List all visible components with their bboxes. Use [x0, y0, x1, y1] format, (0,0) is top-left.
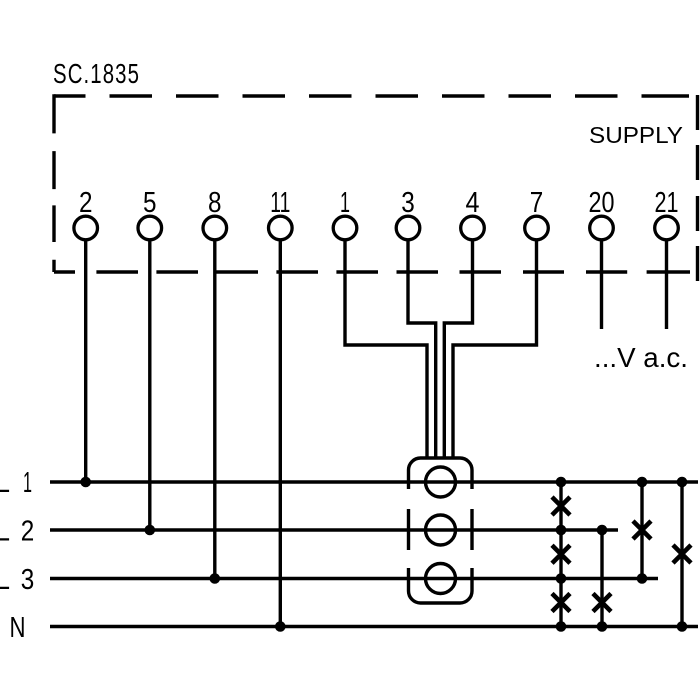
terminal 20 circle — [590, 216, 614, 240]
wire terminal 3 to CT block — [408, 241, 436, 458]
link wire x=642 L1 to L3 — [640, 482, 643, 579]
svg-text:N: N — [10, 612, 26, 644]
line L2 — [50, 528, 618, 532]
X link mark x=561 L3-N — [552, 594, 570, 612]
svg-text:SC.1835: SC.1835 — [53, 58, 140, 89]
junction dot L3 x=561 — [556, 573, 567, 584]
junction dot L1 x=682 — [677, 477, 688, 488]
junction dot L2 / wire 5 — [145, 525, 156, 536]
svg-text:20: 20 — [589, 187, 615, 219]
link wire x=602 L2 to N — [600, 530, 603, 627]
CT block top edge — [409, 458, 473, 470]
junction dot L2 x=561 — [556, 525, 567, 536]
svg-text:L: L — [0, 564, 10, 596]
link wire x=682 L1 to N — [680, 482, 683, 627]
terminal strip dashed line — [54, 270, 690, 273]
wire terminal 1 to CT block — [345, 241, 427, 458]
terminal 7 circle — [525, 216, 549, 240]
junction dot L1 x=561 — [556, 477, 567, 488]
terminal 21 circle — [655, 216, 679, 240]
svg-text:21: 21 — [655, 187, 679, 219]
svg-text:5: 5 — [143, 187, 157, 219]
junction dot L3 / wire 8 — [210, 573, 221, 584]
CT circle phase L3 — [426, 564, 456, 594]
svg-text:1: 1 — [23, 467, 32, 499]
X link mark x=642 L1-L3 — [633, 521, 651, 539]
terminal 1 circle — [333, 216, 357, 240]
svg-text:1: 1 — [340, 187, 350, 219]
junction dot N / wire 11 — [275, 621, 286, 632]
svg-text:11: 11 — [270, 187, 290, 219]
terminal 2 circle — [74, 216, 98, 240]
CT circle phase L2 — [426, 515, 456, 545]
svg-text:2: 2 — [21, 516, 35, 548]
wire terminal 20 supply stub — [600, 241, 603, 329]
wire terminal 8 to L3 — [213, 241, 216, 579]
terminal 4 circle — [461, 216, 485, 240]
X link mark x=561 L2-L3 — [552, 545, 570, 563]
junction dot N x=561 — [556, 621, 567, 632]
wire terminal 2 to L1 — [84, 241, 87, 482]
CT block bottom edge — [409, 591, 473, 603]
svg-text:SUPPLY: SUPPLY — [589, 122, 683, 148]
X link mark x=561 L1-L2 — [552, 497, 570, 515]
meter enclosure right dashed edge — [696, 95, 699, 281]
X link mark x=682 L1-N — [673, 545, 691, 563]
X link mark x=602 L3-N — [593, 594, 611, 612]
line L3 — [50, 577, 658, 581]
CT block left dashed edge — [407, 470, 410, 591]
line N — [50, 625, 698, 629]
junction dot L2 x=602 — [597, 525, 608, 536]
svg-text:8: 8 — [208, 187, 222, 219]
svg-text:L: L — [0, 467, 10, 499]
svg-text:2: 2 — [79, 187, 93, 219]
terminal 3 circle — [396, 216, 420, 240]
svg-text:3: 3 — [401, 187, 415, 219]
svg-text:3: 3 — [21, 564, 35, 596]
svg-text:...V a.c.: ...V a.c. — [594, 342, 688, 373]
wire terminal 7 to CT block — [453, 241, 537, 458]
junction dot N x=602 — [597, 621, 608, 632]
wire terminal 11 to N — [279, 241, 282, 627]
wire terminal 4 to CT block — [444, 241, 472, 458]
wire terminal 21 supply stub — [665, 241, 668, 329]
terminal 11 circle — [269, 216, 293, 240]
meter enclosure top dashed edge — [54, 94, 689, 97]
svg-text:7: 7 — [530, 187, 544, 219]
wire terminal 5 to L2 — [148, 241, 151, 530]
junction dot L1 / wire 2 — [80, 477, 91, 488]
junction dot L1 x=642 — [637, 477, 648, 488]
junction dot N x=682 — [677, 621, 688, 632]
svg-text:4: 4 — [466, 187, 480, 219]
line L1 — [50, 480, 698, 484]
terminal 5 circle — [138, 216, 162, 240]
CT circle phase L1 — [426, 467, 456, 497]
meter enclosure left dashed edge — [52, 94, 55, 272]
CT block right dashed edge — [470, 470, 473, 591]
link wire x=561 L1 to N — [559, 482, 562, 627]
terminal 8 circle — [203, 216, 227, 240]
svg-text:L: L — [0, 516, 10, 548]
junction dot L3 x=642 — [637, 573, 648, 584]
